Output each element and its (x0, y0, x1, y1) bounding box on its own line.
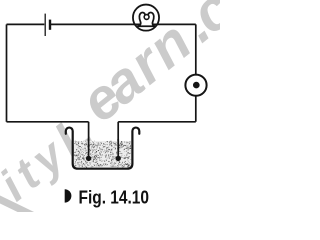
svg-text:Fig. 14.10: Fig. 14.10 (79, 187, 150, 207)
